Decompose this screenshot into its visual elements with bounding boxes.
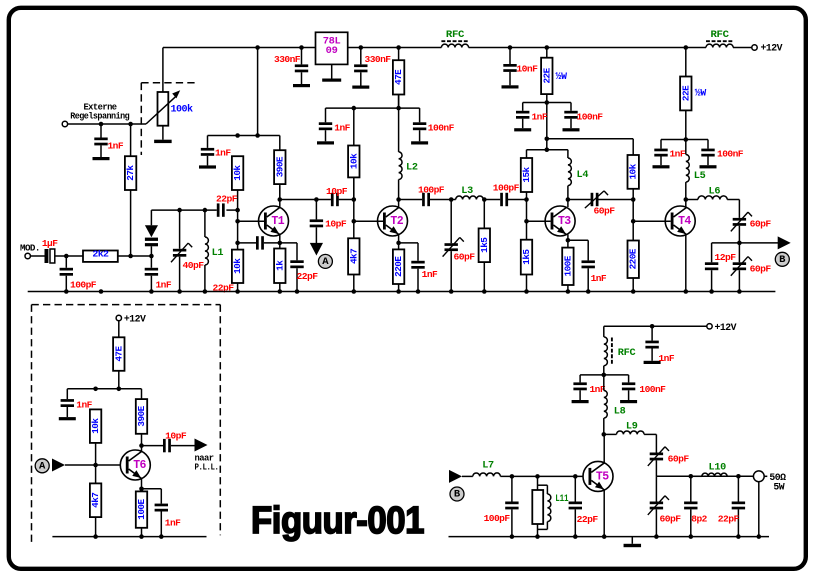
capacitor 1nF at +12V T5 [651,326,653,340]
resistor 4k7 T6 [95,465,97,483]
resistor 4k7 T2 [353,275,355,292]
svg-text:10nF: 10nF [516,64,538,75]
capacitor 1nF T2 emitter [399,242,418,244]
svg-text:60pF: 60pF [454,252,476,263]
ground rail T6 [52,536,206,538]
svg-text:09: 09 [326,45,338,57]
trimmer capacitor 60pF output [655,476,657,501]
svg-text:L7: L7 [482,461,494,472]
capacitor 330nF right [360,48,362,65]
node A input [35,459,49,473]
capacitor 1nF at regelspanning [100,124,102,138]
svg-text:40pF: 40pF [183,260,205,271]
svg-text:100k: 100k [171,104,194,115]
capacitor 10pF coupling horizontal [331,193,334,206]
svg-text:390E: 390E [136,405,147,426]
capacitor 1nF decoupling T5 [579,375,581,383]
svg-text:22pF: 22pF [297,271,319,282]
svg-text:1nF: 1nF [108,141,124,152]
svg-text:A: A [39,461,46,473]
svg-text:A: A [322,256,329,268]
wire T6 bias node [67,388,141,390]
capacitor 10nF [509,48,511,65]
resistor 22E half-watt right [685,48,687,77]
svg-text:22E: 22E [680,85,691,101]
svg-text:100nF: 100nF [717,148,744,159]
svg-text:220E: 220E [628,248,639,269]
wire 9V regulated node [326,107,420,109]
svg-text:+12V: +12V [124,314,146,325]
svg-text:4k7: 4k7 [348,249,359,264]
capacitor 100nF decoupling T5 [628,375,630,383]
svg-text:10pF: 10pF [165,431,187,442]
svg-text:1k5: 1k5 [521,249,532,265]
resistor 47E top [398,48,400,61]
RFC choke T5 [603,326,605,337]
arrow to node A [310,243,323,256]
dashed box T6 buffer [32,304,221,306]
svg-text:15k: 15k [521,166,532,182]
svg-text:100pF: 100pF [418,185,445,196]
capacitor 100pF at MOD [65,256,67,268]
wire T2 emitter [398,235,400,250]
svg-text:60pF: 60pF [750,264,772,275]
78L09 regulator U1 [316,32,348,64]
svg-text:1nF: 1nF [532,112,548,123]
svg-text:+12V: +12V [715,322,737,333]
capacitor 22pF T1 feedback [238,242,256,244]
wire T5 collector [603,434,605,463]
svg-text:1k5: 1k5 [479,237,490,253]
wire T6 emitter [141,479,143,492]
wire 2k2 to varicap node [118,255,152,257]
svg-text:½W: ½W [556,71,568,82]
capacitor 12pF [711,243,713,262]
resistor 1k5 left [483,200,485,229]
ground rail top section [28,291,776,293]
svg-text:MOD.: MOD. [20,242,40,253]
capacitor 1nF at L5 node [660,140,662,149]
svg-text:60pF: 60pF [594,206,616,217]
wire 22E-2 to L5 node [661,139,708,141]
trimmer capacitor 40pF [179,210,181,249]
svg-text:100pF: 100pF [493,183,520,194]
terminal MOD input [25,253,30,258]
svg-text:100E: 100E [562,255,573,276]
inductor L6 [686,199,698,201]
dashed box around 100k potentiometer [141,82,196,84]
svg-text:1nF: 1nF [165,518,181,529]
transistor T2 [378,206,408,236]
wire T1 collector node [279,186,281,208]
svg-text:B: B [454,489,461,501]
terminal 50 ohm output [753,471,764,482]
svg-text:L1: L1 [212,248,224,259]
terminal +12V T6 [116,315,121,320]
wire regelspanning [68,123,146,125]
svg-text:10k: 10k [232,258,243,274]
capacitor 1nF T3 emitter [568,239,588,241]
ground symbol T5 [631,537,633,544]
capacitor 22pF T1 input [217,203,220,216]
trimmer capacitor 60pF at L3 [450,200,452,244]
svg-text:10k: 10k [90,418,101,434]
trimmer capacitor 60pF T4 out upper [738,200,740,218]
svg-text:RFC: RFC [711,30,729,41]
resistor 100E T6 [141,528,143,537]
capacitor 100nF at 9V node [419,108,421,122]
svg-text:Regelspanning: Regelspanning [70,111,129,121]
capacitor 22pF T5 input [574,476,576,501]
capacitor 8p2 [690,476,692,501]
svg-text:390E: 390E [274,156,285,177]
svg-text:1nF: 1nF [156,279,172,290]
svg-text:5W: 5W [773,481,784,492]
inductor L5 [685,140,687,155]
svg-text:1nF: 1nF [422,269,438,280]
capacitor 1nF at T1 bias [207,136,209,148]
resistor 10k T1 upper [232,156,243,190]
resistor 47E T6 [118,321,120,338]
svg-text:10pF: 10pF [325,219,347,230]
wire T4 collector node [684,197,689,202]
svg-text:1k: 1k [274,260,285,271]
junction dots on rail [255,45,260,50]
svg-text:22pF: 22pF [718,514,740,525]
capacitor 1nF T6 bias [66,389,68,399]
svg-text:1nF: 1nF [670,148,686,159]
wire T4 base [633,220,671,222]
wire varicap node row [151,209,216,211]
resistor 22E half-watt left [546,48,548,58]
svg-text:10pF: 10pF [326,186,348,197]
svg-text:T5: T5 [596,471,609,484]
terminal +12V T5 [707,324,712,329]
transistor T1 [259,206,289,236]
inductor L4 [568,158,571,186]
arrow from B [449,470,462,483]
svg-text:1nF: 1nF [659,353,675,364]
inductor L2 [398,108,400,152]
wire T2 base column [353,177,355,238]
svg-text:100E: 100E [136,499,147,520]
svg-text:12pF: 12pF [715,252,737,263]
svg-text:½W: ½W [695,88,707,99]
node A [318,254,332,268]
terminal regelspanning input [62,121,67,126]
capacitor 1nF T6 emitter [142,488,162,490]
svg-text:220E: 220E [393,256,404,277]
svg-text:+12V: +12V [761,43,783,54]
capacitor 10pF T6 out [142,445,164,447]
svg-text:330nF: 330nF [274,54,301,65]
trimmer capacitor 60pF T3 out [568,199,591,201]
svg-text:L4: L4 [577,170,589,181]
svg-text:4k7: 4k7 [90,493,101,508]
inductor L8 [603,375,605,391]
arrow to node B [778,236,791,249]
wire regulated node to T1 bias [208,135,280,137]
svg-text:2k2: 2k2 [92,249,109,260]
resistor 1k [279,283,281,292]
svg-text:100nF: 100nF [428,123,455,134]
svg-text:1nF: 1nF [215,148,231,159]
svg-text:22E: 22E [541,67,552,83]
wire T4 emitter to ground [685,235,687,292]
capacitor 100nF at 22E node [547,102,571,104]
wire T5 output node [656,475,756,477]
svg-text:10k: 10k [232,165,243,181]
resistor 1k5 T3 base [526,275,528,292]
resistor 10k T2 bias [353,108,355,145]
resistor 15k [526,192,528,200]
svg-text:100pF: 100pF [70,279,97,290]
wire T6 collector node [141,446,143,452]
wire T3 collector supply [547,138,633,140]
inductor L3 [456,196,484,199]
svg-text:B: B [779,254,786,266]
wire T3 collector node [566,197,571,202]
svg-text:L3: L3 [461,186,473,197]
inductor L1 [204,210,206,237]
capacitor 10pF to A [315,200,317,220]
resistor 220E T2 [398,284,400,292]
capacitor 1nF at 22E node [523,102,547,104]
svg-text:L8: L8 [614,407,626,418]
wire MOD to 2k2 [55,255,83,257]
wire +12V rail [163,47,441,49]
node wire T1 base column [237,190,239,250]
svg-text:L9: L9 [626,422,638,433]
inductor L7 [473,473,501,476]
capacitor 100pF T2 out [422,193,425,206]
capacitor 22pF output [737,476,739,501]
svg-text:47E: 47E [113,346,124,362]
svg-text:60pF: 60pF [660,514,682,525]
wire T6 base [65,464,126,466]
transistor T3 [545,206,575,236]
svg-text:P.L.L.: P.L.L. [195,462,219,472]
svg-text:RFC: RFC [446,30,464,41]
capacitor 22pF T1 emitter bypass [280,242,297,244]
svg-text:330nF: 330nF [365,54,392,65]
node B [775,252,789,266]
capacitor 100nF at L5 node [707,140,709,149]
svg-text:L11: L11 [555,494,568,505]
transistor T5 [583,461,613,491]
wire T4 base column [632,189,634,241]
resistor 10k T6 [95,443,97,465]
resistor 390E T6 [141,434,143,446]
svg-text:60pF: 60pF [750,219,772,230]
wire T1 collector to T2 [280,199,331,201]
capacitor 100pF T5 input [511,476,513,501]
svg-text:27k: 27k [125,165,136,181]
svg-text:RFC: RFC [618,348,636,359]
svg-text:L10: L10 [709,463,727,474]
wire T1 base [238,220,264,222]
wire output node B [712,242,778,244]
potentiometer 100k [146,48,193,144]
svg-text:22pF: 22pF [577,514,599,525]
svg-text:100pF: 100pF [484,513,511,524]
resistor 27k [130,124,132,156]
capacitor 330nF left [301,48,303,65]
svg-text:L2: L2 [406,163,418,174]
wire 22E to T3 node [546,103,548,150]
svg-text:10k: 10k [348,153,359,169]
svg-text:1nF: 1nF [334,123,350,134]
wire T2 base [354,220,383,222]
capacitor 100pF T3 input [500,193,503,206]
resistor 10k T4 bias [628,155,639,189]
svg-text:T6: T6 [133,459,146,472]
wire T2 collector node [396,197,401,202]
svg-text:22pF: 22pF [216,193,238,204]
svg-text:1nF: 1nF [591,273,607,284]
svg-text:100nF: 100nF [639,384,666,395]
wire T3 base [527,220,551,222]
transistor T6 [120,450,150,480]
arrow from A [52,459,65,472]
svg-text:1µF: 1µF [42,238,58,249]
trimmer capacitor 60pF T4 out lower [738,243,740,262]
svg-text:10k: 10k [628,163,639,179]
RFC choke left [441,44,468,47]
resistor 10k T1 lower [237,283,239,292]
trimmer capacitor 60pF L9 out [655,434,657,452]
svg-text:100nF: 100nF [577,112,604,123]
wire T1 emitter [279,235,281,249]
varicap diode [150,210,152,225]
svg-text:60pF: 60pF [668,454,690,465]
ground rail T5 [449,536,770,538]
capacitor 1nF below varicap [150,256,152,268]
RFC choke right [706,44,733,47]
resistor 220E T4 base [632,278,634,292]
78L09 ground pin [331,64,333,78]
resistor 2k2 horizontal [83,251,118,262]
resistor 100E T3 [567,285,569,292]
wire T5 emitter [603,490,605,537]
wire decoupling node T5 [580,374,629,376]
wire T3 emitter [567,235,569,248]
wire +12V T5 rail [604,325,707,327]
transistor T4 [665,206,695,236]
svg-text:L6: L6 [709,187,721,198]
inductor L11 with damping resistor [537,476,539,490]
capacitor 1nF at 9V node [325,108,327,122]
svg-text:T1: T1 [271,215,284,228]
capacitor 1uF electrolytic [30,255,44,257]
svg-text:T4: T4 [678,215,691,228]
resistor 390E T1 [279,136,281,151]
svg-text:8p2: 8p2 [691,514,707,525]
svg-text:Figuur-001: Figuur-001 [251,500,424,542]
inductor L9 [602,432,607,437]
node B input [450,487,464,501]
terminal +12V top right [752,45,757,50]
svg-text:T2: T2 [390,215,403,228]
inductor L10 [691,475,702,477]
wire T2 collector to T3 [399,199,423,201]
arrow naar PLL [195,439,208,452]
svg-text:47E: 47E [393,69,404,85]
svg-text:T3: T3 [558,215,571,228]
wire T5 base [462,475,473,477]
svg-text:L5: L5 [694,171,706,182]
